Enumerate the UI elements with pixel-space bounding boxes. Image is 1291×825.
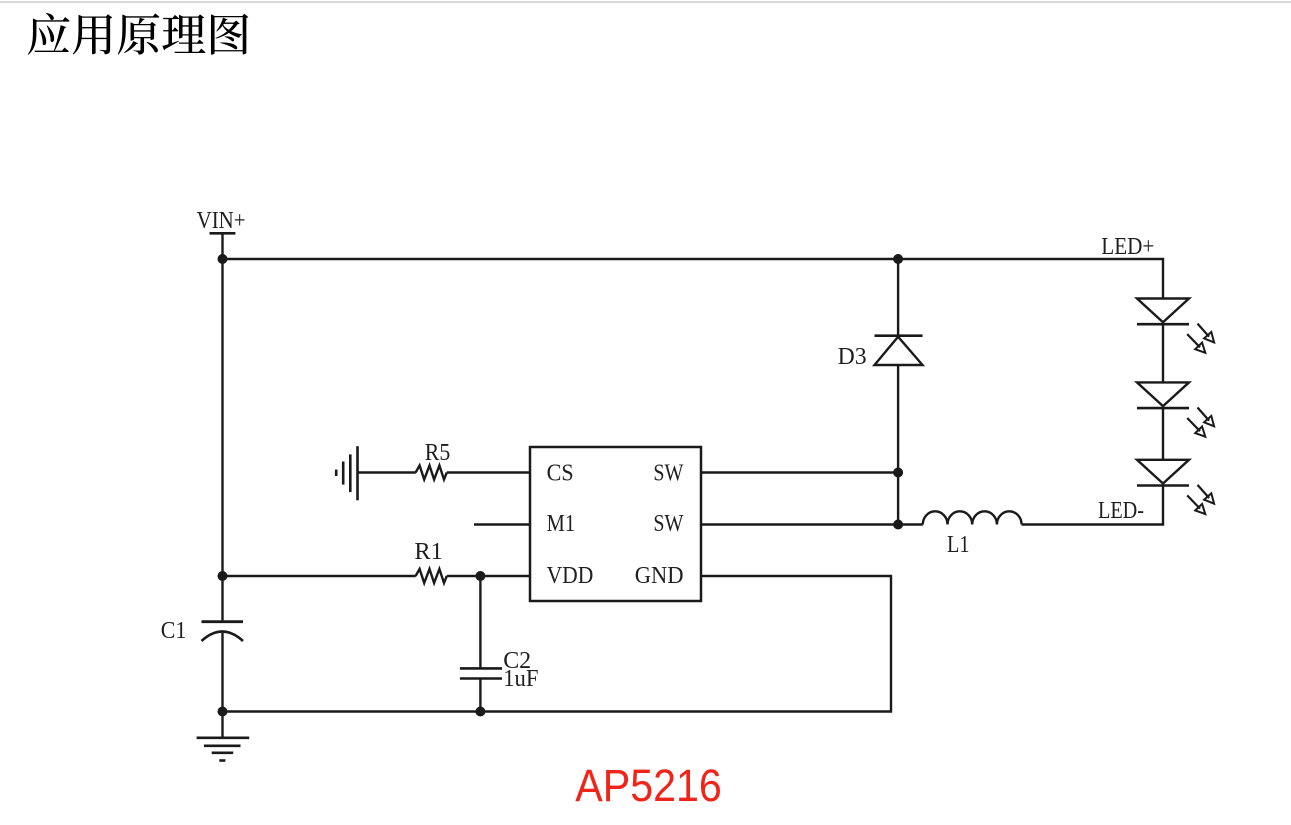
wire C1 bottom to rail: [221, 633, 223, 738]
LED D1: [1137, 299, 1214, 353]
svg-text:LED+: LED+: [1101, 234, 1154, 260]
inductor L1: [923, 511, 1022, 524]
diode D3: [875, 336, 923, 365]
svg-text:M1: M1: [547, 511, 576, 537]
wire LED1-LED2: [1162, 324, 1164, 382]
svg-text:C1: C1: [161, 618, 187, 644]
wire rail to R1: [223, 575, 416, 577]
wire top rail VIN+ to LED+: [223, 259, 1164, 299]
resistor R1: [416, 569, 447, 583]
LED D2: [1137, 382, 1214, 436]
svg-text:VDD: VDD: [547, 563, 594, 589]
svg-text:SW: SW: [653, 511, 683, 537]
wire LED2-LED3: [1162, 408, 1164, 459]
wire SW1 to D3: [701, 471, 898, 473]
junction top rail / D3: [893, 254, 903, 264]
wire left rail upper (VIN+ down to C1): [221, 233, 223, 620]
wire R1 to VDD: [447, 575, 530, 577]
wire D3 bottom: [897, 365, 899, 525]
svg-text:GND: GND: [635, 563, 684, 589]
wire M1 stub: [474, 523, 530, 525]
svg-text:AP5216: AP5216: [575, 760, 722, 811]
wire LED3 down and left to L1: [1022, 486, 1163, 525]
wire C2 down to bottom rail: [479, 679, 481, 712]
wire GND return path: [223, 576, 892, 712]
wire VDD node down to C2: [479, 576, 481, 668]
ground (earth) bottom: [197, 738, 250, 761]
junction C2 bottom: [475, 707, 485, 717]
wire SW2 to L1: [898, 523, 923, 525]
junction VIN+ top: [218, 254, 228, 264]
junction left rail VDD: [218, 571, 228, 581]
wire gnd to R5: [358, 471, 416, 473]
top page divider line: [0, 1, 1291, 3]
capacitor C2: [460, 668, 502, 678]
capacitor C1: [202, 622, 244, 641]
junction SW2/L1: [893, 520, 903, 530]
resistor R5: [416, 466, 447, 480]
LED D3b: [1137, 460, 1214, 514]
ground (signal) for R5: [336, 446, 357, 500]
op IC U1 box: [530, 447, 701, 601]
title 应用原理图: [28, 13, 248, 55]
junction VDD/C2: [475, 571, 485, 581]
svg-text:R1: R1: [414, 539, 443, 565]
svg-text:LED-: LED-: [1098, 498, 1144, 524]
wire R5 to CS: [447, 471, 530, 473]
wire SW2 to L1 node: [701, 523, 898, 525]
svg-text:SW: SW: [653, 460, 683, 486]
svg-text:CS: CS: [547, 460, 574, 486]
svg-text:D3: D3: [838, 344, 867, 370]
svg-text:1uF: 1uF: [503, 666, 538, 692]
wire D3 top: [897, 259, 899, 336]
VIN+ terminal tick: [210, 232, 236, 235]
junction SW1/D3: [893, 468, 903, 478]
svg-text:L1: L1: [947, 532, 970, 558]
svg-text:VIN+: VIN+: [197, 208, 246, 234]
svg-text:R5: R5: [425, 440, 451, 466]
junction bottom rail left: [218, 707, 228, 717]
